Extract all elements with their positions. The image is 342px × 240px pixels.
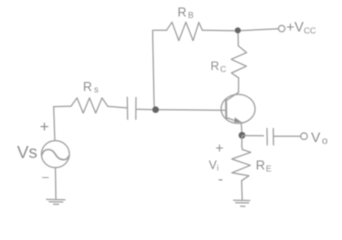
node E junction dot (239, 132, 246, 139)
svg-text:+VCC: +VCC (286, 19, 316, 36)
sine wave inside Vs (42, 150, 69, 160)
svg-text:+: + (40, 119, 49, 136)
node B junction dot (235, 27, 241, 33)
transistor Q1 emitter diagonal (226, 118, 239, 122)
wire base from node A (156, 109, 227, 112)
svg-text:Rs: Rs (83, 80, 99, 95)
wire Vs top to input line (54, 107, 55, 141)
capacitor C1 right plate (135, 98, 137, 120)
wire node B to VCC terminal (238, 29, 279, 31)
svg-text:RC: RC (211, 59, 227, 74)
wire node E down to RE (241, 136, 243, 147)
wire emitter down to node E (240, 122, 243, 135)
wire node B down to RC (237, 31, 239, 46)
transistor Q1 base bar (225, 100, 227, 119)
ground (emitter) (234, 200, 250, 206)
resistor RB (167, 22, 203, 40)
capacitor C2 left plate (266, 129, 268, 146)
transistor Q1 collector diagonal (226, 92, 238, 100)
wire RB to node B (202, 29, 238, 32)
transistor Q1 emitter arrowhead (234, 117, 242, 122)
wire RE to ground (241, 181, 244, 200)
wire RC to collector (238, 78, 240, 93)
resistor Rs (71, 98, 108, 113)
wire node E to output capacitor (242, 135, 264, 137)
svg-text:RB: RB (178, 5, 195, 20)
wire node A up to RB branch (153, 30, 167, 109)
svg-text:Vs: Vs (17, 142, 38, 162)
resistor RC (231, 46, 246, 78)
ground (source) (47, 199, 66, 204)
capacitor C2 right plate (272, 129, 274, 146)
svg-text:-: - (218, 171, 223, 188)
source Vs (41, 141, 69, 168)
wire Vs bottom to ground (54, 168, 57, 199)
transistor Q1 body (221, 94, 255, 123)
wire capacitor to Vo terminal (274, 135, 301, 137)
node A junction dot (152, 106, 159, 113)
terminal Vo (301, 133, 308, 140)
wire capacitor to node A (136, 108, 152, 110)
wire Rs to capacitor (108, 106, 127, 108)
resistor RE (232, 146, 251, 181)
wire input horizontal to Rs (54, 105, 71, 107)
terminal +VCC (279, 25, 285, 31)
capacitor C1 left plate (126, 97, 128, 119)
svg-text:–: – (42, 170, 49, 184)
svg-text:RE: RE (256, 157, 272, 173)
svg-text:+: + (215, 140, 223, 156)
svg-text:Vo: Vo (311, 129, 328, 147)
